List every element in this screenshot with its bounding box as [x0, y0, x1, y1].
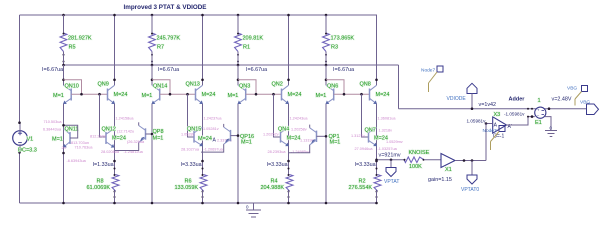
- wire base bus cell 4: [344, 93, 370, 95]
- svg-text:QN14: QN14: [153, 83, 167, 89]
- svg-text:1.3127v: 1.3127v: [351, 134, 365, 138]
- wire X1 output: [455, 160, 486, 162]
- transistor QN8 M=24: [369, 89, 371, 101]
- node bottom rail junction x=376.5: [375, 202, 378, 205]
- svg-text:-1.24985ua: -1.24985ua: [291, 150, 311, 154]
- svg-text:812.242n: 812.242n: [90, 134, 106, 138]
- svg-text:1.05981v: 1.05981v: [467, 118, 487, 123]
- svg-text:M=24: M=24: [288, 92, 302, 98]
- svg-text:E1: E1: [535, 120, 542, 126]
- resistor R8 61.0069K: [113, 160, 116, 163]
- svg-text:QN2: QN2: [272, 82, 283, 88]
- svg-text:M=1: M=1: [52, 136, 63, 142]
- ground at E1: [545, 130, 557, 132]
- wire QP1 base stub: [317, 135, 327, 137]
- svg-text:1.24243ua: 1.24243ua: [290, 117, 309, 121]
- svg-text:DC=3.3: DC=3.3: [18, 148, 37, 154]
- wire base drop to middle row cell 4: [362, 94, 369, 137]
- svg-text:I=6.67ua: I=6.67ua: [42, 67, 63, 73]
- wire PTAT bias rail I-rail: [64, 64, 399, 66]
- resistor R2 276.554K: [375, 160, 378, 163]
- svg-text:M=1: M=1: [316, 93, 327, 99]
- svg-text:M=1: M=1: [53, 93, 64, 99]
- op-amp X3 inverter G=-1: [493, 117, 507, 133]
- svg-text:QN13: QN13: [186, 82, 200, 88]
- wire column 202.5 upper: [202, 15, 204, 85]
- wire X3 output to E1: [507, 117, 535, 125]
- svg-text:QN11: QN11: [65, 127, 79, 133]
- svg-text:R5: R5: [69, 45, 76, 51]
- svg-text:-6.63943ua: -6.63943ua: [67, 159, 87, 163]
- svg-text:QN3: QN3: [239, 83, 250, 89]
- svg-text:R7: R7: [157, 45, 164, 51]
- svg-text:KNOISE: KNOISE: [409, 150, 430, 156]
- wire QP8 base stub: [146, 133, 153, 135]
- wire KNOISE to X1: [424, 159, 441, 161]
- wire R3 lower lead to I-rail: [325, 52, 327, 66]
- svg-text:1.3218v: 1.3218v: [379, 129, 393, 133]
- transistor QN14 M=1 diode-connected: [159, 89, 161, 101]
- wire E1 lower output to ground: [545, 117, 551, 130]
- wire column 63.5 I-rail to QN10 collector: [63, 65, 65, 85]
- svg-text:-1.05981v: -1.05981v: [504, 112, 525, 117]
- port VDIODE: [467, 83, 477, 93]
- svg-text:245.797K: 245.797K: [157, 36, 181, 42]
- node top rail junction x=238: [237, 14, 240, 17]
- svg-text:6.38443ua: 6.38443ua: [43, 127, 62, 131]
- svg-text:M=1: M=1: [330, 140, 341, 146]
- resistor R1 209.81K: [235, 33, 242, 52]
- svg-text:27.0946ua: 27.0946ua: [355, 147, 374, 151]
- svg-text:M=24: M=24: [112, 136, 126, 142]
- svg-text:M=24: M=24: [198, 136, 212, 142]
- svg-text:R6: R6: [185, 178, 192, 184]
- wire QP16 base stub: [231, 135, 239, 137]
- wire QN10 base-collector tie loop: [64, 80, 82, 94]
- svg-text:-1.03257ua: -1.03257ua: [378, 147, 398, 151]
- wire R5 upper lead: [63, 15, 65, 33]
- svg-text:R8: R8: [97, 178, 104, 184]
- resistor R4 204.988K: [287, 160, 290, 163]
- svg-text:M=1: M=1: [241, 140, 252, 146]
- port VPTAT0: [471, 161, 473, 176]
- svg-text:QN4: QN4: [278, 127, 289, 133]
- node top rail junction x=63.5: [62, 14, 65, 17]
- wire left supply rail upper: [19, 15, 21, 123]
- wire left supply rail lower: [19, 152, 21, 203]
- transistor QN4 M=24: [280, 131, 282, 143]
- svg-text:R4: R4: [271, 178, 278, 184]
- svg-text:M=24: M=24: [202, 92, 216, 98]
- svg-text:I=6.67ua: I=6.67ua: [333, 67, 354, 73]
- wire R1 upper lead: [237, 15, 239, 33]
- wire column 376.5 upper: [376, 15, 378, 85]
- wire column 326 mid section: [325, 104, 327, 203]
- svg-text:710.763ua: 710.763ua: [75, 145, 94, 149]
- wire QP1 upper stub: [309, 125, 311, 128]
- svg-text:1.0528v: 1.0528v: [181, 132, 195, 136]
- resistor R7 245.797K: [149, 33, 156, 52]
- transistor QN12 M=24: [105, 132, 107, 144]
- transistor QN11 M=1 diode-connected: [69, 132, 71, 144]
- svg-text:QN8: QN8: [360, 82, 371, 88]
- wire base bus cell 3: [256, 93, 282, 95]
- resistor KNOISE 100K: [404, 157, 424, 163]
- transistor QN7 M=24: [368, 131, 370, 143]
- svg-text:X3: X3: [494, 112, 501, 118]
- wire R7 lower lead to I-rail: [151, 52, 153, 66]
- svg-text:I=3.33ua: I=3.33ua: [267, 162, 288, 168]
- node bottom rail junction x=202.5: [201, 202, 204, 205]
- svg-text:Node7: Node7: [421, 68, 435, 74]
- svg-text:1.24237ua: 1.24237ua: [204, 117, 223, 121]
- transistor QN10 M=1 diode-connected: [70, 89, 72, 101]
- wire QP16 upper stub: [223, 124, 225, 127]
- svg-text:VBG: VBG: [567, 86, 577, 92]
- wire bottom ground rail: [20, 202, 377, 204]
- svg-text:281.927K: 281.927K: [68, 36, 92, 42]
- svg-text:204.988K: 204.988K: [261, 185, 285, 191]
- transistor QP16 M=1: [230, 130, 232, 141]
- wire QP8 emitter link: [115, 143, 139, 151]
- svg-text:R2: R2: [359, 178, 366, 184]
- svg-text:1.36081ua: 1.36081ua: [378, 117, 397, 121]
- svg-text:M=24: M=24: [287, 135, 301, 141]
- svg-text:gain=1.15: gain=1.15: [428, 177, 452, 183]
- svg-text:1.0529mv: 1.0529mv: [386, 140, 403, 144]
- svg-text:R3: R3: [331, 45, 338, 51]
- wire QN11 base-collector tie loop: [64, 125, 78, 138]
- wire base drop to middle row cell 2: [188, 94, 195, 137]
- svg-text:813.703un: 813.703un: [71, 141, 89, 145]
- svg-text:61.0069K: 61.0069K: [87, 185, 111, 191]
- micro annotation -6.63943ua: [62, 152, 65, 155]
- svg-text:R1: R1: [243, 45, 250, 51]
- wire base bus cell 2: [170, 93, 196, 95]
- wire I-rail drop to adder: [398, 65, 400, 109]
- node bottom rail junction x=114.5: [113, 202, 116, 205]
- svg-text:1.24158ua: 1.24158ua: [116, 117, 135, 121]
- resistor R3 173.865K: [323, 33, 330, 52]
- wire R3 upper lead: [325, 15, 327, 33]
- wire QP16 emitter link: [201, 144, 224, 152]
- ground main: [253, 203, 255, 210]
- svg-text:VPTAT0: VPTAT0: [461, 187, 479, 193]
- node bottom rail junction x=288.5: [287, 202, 290, 205]
- svg-text:28.2393ua: 28.2393ua: [268, 150, 287, 154]
- svg-text:173.865K: 173.865K: [331, 36, 355, 42]
- node bottom rail junction x=63.5: [62, 202, 65, 205]
- svg-text:Improved 3 PTAT & VDIODE: Improved 3 PTAT & VDIODE: [123, 4, 206, 11]
- svg-text:1.20258v: 1.20258v: [291, 128, 307, 132]
- wire QN3 base-collector tie loop: [238, 80, 256, 94]
- wire column 376.5 mid section: [376, 104, 378, 175]
- node top rail junction x=326: [325, 14, 328, 17]
- wire base drop to middle row cell 3: [274, 94, 281, 137]
- wire column 238 mid section: [237, 104, 239, 203]
- svg-text:1.05281v: 1.05281v: [203, 127, 219, 131]
- svg-text:M=1: M=1: [228, 93, 239, 99]
- svg-text:I=1.33ua: I=1.33ua: [93, 162, 114, 168]
- wire QN14 base-collector tie loop: [152, 80, 170, 94]
- svg-text:2n: 2n: [62, 146, 66, 150]
- dependent source E1: [535, 107, 546, 118]
- wire column 114.5 upper: [114, 15, 116, 85]
- svg-text:(26.326ua: (26.326ua: [127, 140, 145, 144]
- svg-text:M=1: M=1: [153, 136, 164, 142]
- svg-text:X1: X1: [445, 167, 452, 173]
- svg-text:Node7: Node7: [483, 128, 497, 134]
- svg-text:I=6.67ua: I=6.67ua: [246, 67, 267, 73]
- wire column 152 I-rail to QN14 collector: [151, 65, 153, 85]
- op-amp buffer X1 gain=1.15: [441, 154, 455, 168]
- wire column 202.5 mid section: [202, 104, 204, 175]
- wire v=921mv node to KNOISE: [377, 159, 405, 161]
- svg-text:1: 1: [538, 98, 541, 104]
- svg-text:VPTAT: VPTAT: [384, 179, 399, 185]
- node bottom rail junction x=152: [151, 202, 154, 205]
- wire R1 lower lead to I-rail: [237, 52, 239, 66]
- wire X3 input riser: [485, 124, 487, 161]
- svg-text:QN7: QN7: [365, 128, 376, 134]
- port VPTAT: [390, 159, 393, 162]
- svg-text:I=3.33ua: I=3.33ua: [181, 162, 202, 168]
- wire base drop to middle row cell 1: [100, 94, 107, 137]
- svg-text:-1.20697ua: -1.20697ua: [204, 148, 224, 152]
- wire column 114.5 mid section: [114, 104, 116, 175]
- svg-text:I=6.67ua: I=6.67ua: [158, 67, 179, 73]
- resistor R6 133.059K: [201, 160, 204, 163]
- wire base bus cell 1: [82, 93, 108, 95]
- resistor R5 281.927K: [60, 33, 67, 52]
- wire R5 lower lead to I-rail: [63, 52, 65, 66]
- transistor QN2 M=24: [281, 89, 283, 101]
- svg-text:M=24: M=24: [376, 92, 390, 98]
- transistor QP8 M=1: [145, 128, 147, 139]
- svg-text:28.1027ua: 28.1027ua: [181, 148, 200, 152]
- svg-text:QP8: QP8: [153, 129, 164, 135]
- svg-text:M=24: M=24: [114, 92, 128, 98]
- transistor QP1 M=1: [316, 131, 318, 142]
- svg-text:QN10: QN10: [65, 83, 79, 89]
- svg-text:QN12: QN12: [102, 126, 116, 132]
- wire top supply rail: [20, 14, 378, 16]
- voltage source V1: [13, 131, 28, 146]
- svg-text:276.554K: 276.554K: [349, 185, 373, 191]
- wire column 326 I-rail to QN6 collector: [325, 65, 327, 85]
- wire QN6 base-collector tie loop: [326, 80, 344, 94]
- wire QP8 upper stub: [138, 122, 140, 125]
- svg-text:v=921mv: v=921mv: [379, 153, 401, 159]
- transistor QN15 M=24: [193, 131, 195, 143]
- wire column 288.5 upper: [288, 15, 290, 85]
- svg-text:v=1v42: v=1v42: [479, 102, 497, 108]
- svg-text:I=3.33ua: I=3.33ua: [355, 162, 376, 168]
- node top rail junction x=152: [151, 14, 154, 17]
- svg-text:100K: 100K: [409, 164, 422, 170]
- wire column 63.5 mid section: [63, 104, 65, 203]
- svg-text:Adder: Adder: [509, 96, 526, 102]
- svg-text:v=2.48V: v=2.48V: [552, 96, 572, 102]
- svg-text:(12.7142u: (12.7142u: [117, 129, 134, 133]
- svg-text:1.20252v: 1.20252v: [263, 133, 279, 137]
- wire column 238 I-rail to QN3 collector: [237, 65, 239, 85]
- wire R7 upper lead: [151, 15, 153, 33]
- wire column 288.5 mid section: [288, 104, 290, 175]
- wire QP1 emitter link: [289, 145, 310, 153]
- svg-text:209.81K: 209.81K: [243, 36, 264, 42]
- svg-text:M=1: M=1: [142, 93, 153, 99]
- svg-text:133.059K: 133.059K: [175, 185, 199, 191]
- node bottom rail junction x=326: [325, 202, 328, 205]
- transistor QN13 M=24: [195, 89, 197, 101]
- transistor QN9 M=24: [107, 89, 109, 101]
- wire column 152 mid section: [151, 104, 153, 203]
- svg-text:VDIODE: VDIODE: [447, 96, 467, 102]
- wire X3 input: [486, 123, 493, 125]
- transistor QN6 M=1 diode-connected: [333, 89, 335, 101]
- svg-text:QN6: QN6: [327, 83, 338, 89]
- svg-text:QN9: QN9: [98, 82, 109, 88]
- wire VDIODE stem: [471, 94, 473, 109]
- node bottom rail junction x=238: [237, 202, 240, 205]
- wire VDIODE output bus: [399, 108, 587, 110]
- svg-text:710.503ua: 710.503ua: [44, 120, 63, 124]
- transistor QN3 M=1 diode-connected: [245, 89, 247, 101]
- svg-text:V1: V1: [27, 137, 34, 143]
